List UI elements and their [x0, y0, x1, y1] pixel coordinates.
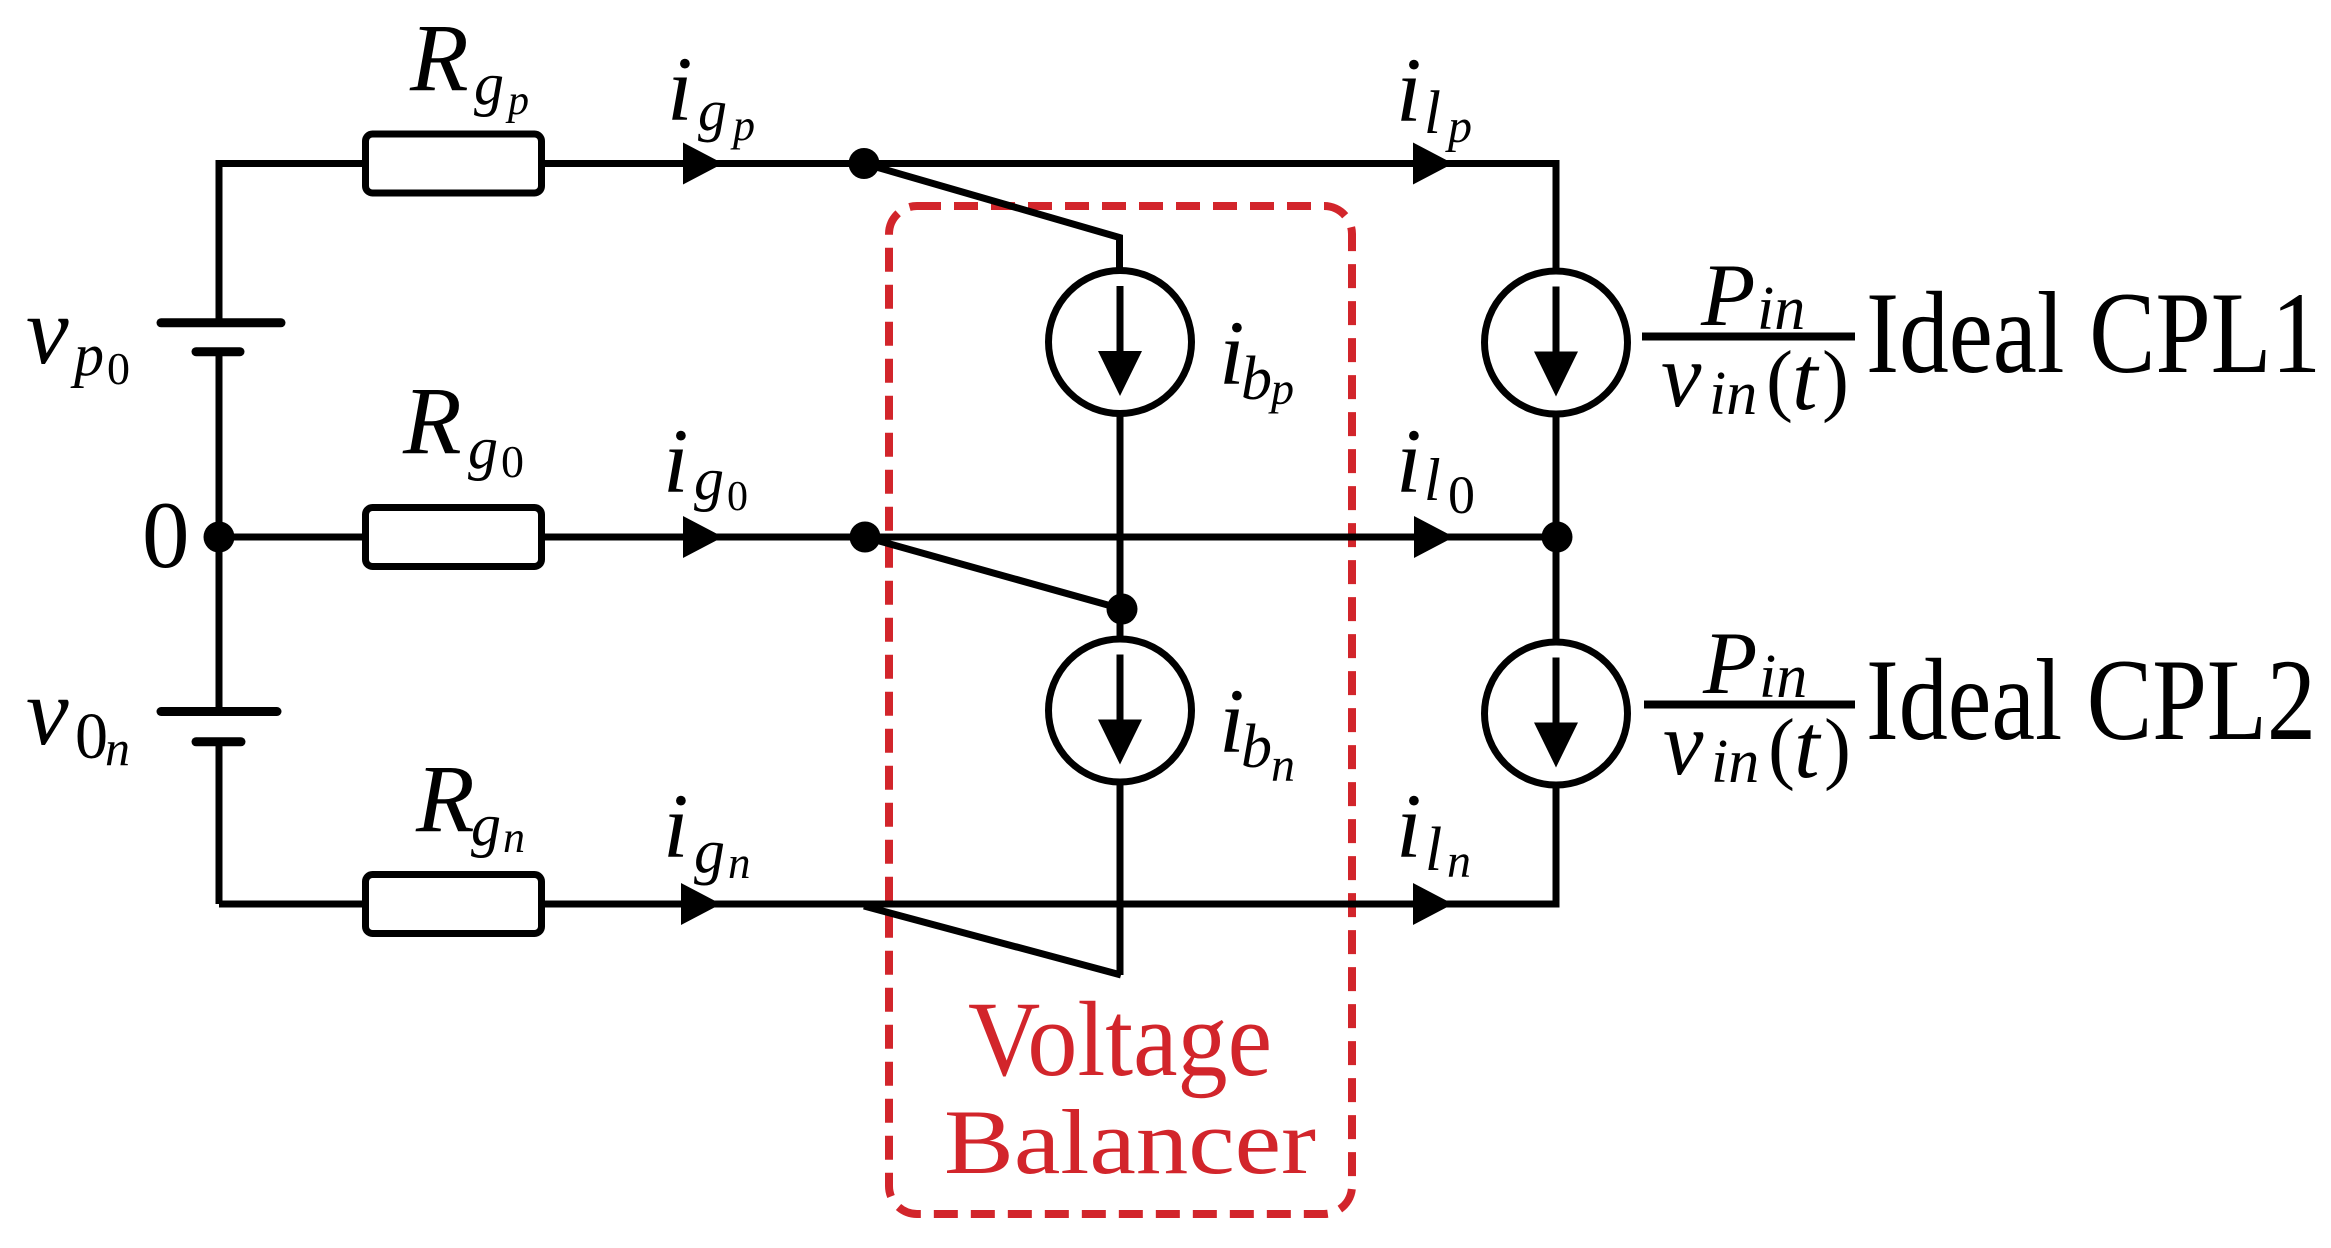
resistor Rgn: [366, 875, 542, 934]
wire left vertical p to vp0: [216, 160, 223, 319]
svg-text:p: p: [1268, 363, 1294, 414]
svg-text:): ): [1822, 334, 1849, 424]
svg-text:P: P: [1702, 615, 1757, 713]
svg-text:l: l: [1424, 447, 1441, 513]
wire CPL column CPL2 to bottom rail: [1553, 784, 1560, 908]
svg-text:p: p: [730, 101, 755, 150]
voltage balancer dashed box: [889, 206, 1352, 1214]
svg-text:b: b: [1241, 713, 1272, 781]
svg-text:): ): [1824, 702, 1851, 792]
svg-text:0: 0: [1448, 465, 1475, 525]
current source CPL2: [1485, 642, 1628, 785]
svg-text:R: R: [402, 367, 462, 474]
arrow iln: [1413, 883, 1453, 925]
svg-text:g: g: [694, 446, 724, 512]
battery v0n long plate: [161, 707, 277, 716]
wire diagonal top tap: [864, 164, 1120, 277]
svg-text:i: i: [1396, 410, 1422, 512]
svg-text:in: in: [1711, 728, 1759, 796]
svg-text:n: n: [105, 720, 130, 776]
wire CPL column between CPL1 and mid rail: [1553, 412, 1560, 537]
wire CPL column top: [1553, 160, 1560, 273]
svg-text:0: 0: [501, 436, 524, 487]
label ibp: [1219, 302, 1294, 414]
wire balancer column ibp to ibn: [1117, 408, 1124, 640]
svg-text:n: n: [503, 813, 525, 862]
svg-text:(: (: [1766, 334, 1793, 424]
svg-text:i: i: [667, 38, 693, 140]
wire left vertical v0n to n rail: [216, 741, 223, 904]
svg-text:i: i: [663, 410, 689, 512]
battery vp0 short plate: [196, 347, 240, 356]
svg-text:Voltage: Voltage: [968, 981, 1272, 1099]
wire mid rail 0: [219, 534, 1557, 541]
svg-text:0: 0: [142, 482, 190, 588]
svg-text:0: 0: [727, 474, 748, 520]
svg-text:Ideal CPL2: Ideal CPL2: [1866, 636, 2316, 765]
battery vp0 long plate: [161, 318, 281, 327]
svg-text:g: g: [694, 818, 725, 886]
arrow igp: [683, 143, 723, 185]
svg-text:R: R: [409, 4, 469, 111]
label igp: [667, 38, 755, 150]
label Rg0: [402, 367, 524, 487]
svg-text:i: i: [663, 775, 689, 877]
label vp0: [26, 277, 130, 394]
arrow ign: [681, 883, 721, 925]
svg-text:t: t: [1792, 327, 1820, 429]
junction node mid rail right: [1542, 522, 1573, 553]
label iln: [1396, 775, 1471, 888]
label Rgn: [415, 745, 525, 862]
wire diagonal mid tap: [865, 537, 1122, 609]
svg-text:t: t: [1794, 695, 1822, 797]
svg-text:R: R: [415, 745, 475, 852]
svg-text:in: in: [1709, 360, 1757, 428]
wire left vertical node 0 to v0n: [216, 537, 223, 708]
svg-text:(: (: [1768, 702, 1795, 792]
arrow il0: [1414, 516, 1454, 558]
junction node mid rail tap: [850, 522, 881, 553]
label ibn: [1219, 670, 1295, 792]
arrow ig0: [683, 516, 723, 558]
svg-text:0: 0: [107, 343, 130, 394]
wire left vertical vp0 to node 0: [216, 351, 223, 537]
svg-text:p: p: [1445, 100, 1472, 153]
label ign: [663, 775, 751, 888]
current source ibp: [1049, 271, 1192, 414]
junction node balancer mid: [1107, 594, 1138, 625]
svg-text:v: v: [1663, 693, 1704, 794]
label Rgp: [409, 4, 529, 124]
svg-text:l: l: [1424, 80, 1441, 147]
wire top rail p: [219, 160, 1557, 167]
resistor Rg0: [366, 508, 542, 567]
svg-text:n: n: [1271, 739, 1295, 792]
resistor Rgp: [366, 134, 542, 193]
svg-text:g: g: [468, 415, 498, 481]
svg-text:g: g: [474, 51, 504, 117]
svg-text:g: g: [698, 78, 727, 143]
current source ibn: [1049, 639, 1192, 782]
label Pin/vin(t) fraction CPL1: [1642, 247, 1855, 429]
svg-text:v: v: [26, 277, 69, 384]
label ig0: [663, 410, 748, 520]
svg-text:v: v: [26, 658, 69, 765]
svg-text:p: p: [505, 78, 529, 124]
svg-text:n: n: [728, 838, 751, 888]
svg-text:l: l: [1425, 816, 1442, 884]
svg-text:g: g: [471, 792, 501, 858]
arrow ilp: [1413, 143, 1453, 185]
wire CPL column mid rail to CPL2: [1553, 537, 1560, 644]
battery v0n short plate: [196, 737, 241, 746]
junction node 0 left: [204, 522, 235, 553]
svg-text:i: i: [1396, 775, 1422, 877]
wire balancer column below ibn: [1117, 780, 1124, 975]
svg-text:n: n: [1447, 835, 1471, 888]
wire bottom rail n: [219, 901, 1557, 908]
svg-text:0: 0: [75, 700, 108, 773]
svg-text:b: b: [1241, 345, 1272, 413]
junction node top rail tap: [849, 148, 880, 179]
label Pin/vin(t) fraction CPL2: [1644, 615, 1855, 797]
svg-text:v: v: [1661, 325, 1702, 426]
svg-text:i: i: [1396, 39, 1422, 141]
current source CPL1: [1485, 271, 1628, 414]
label v0n: [26, 658, 130, 776]
svg-text:P: P: [1700, 247, 1755, 345]
label il0: [1396, 410, 1475, 525]
svg-text:Ideal CPL1: Ideal CPL1: [1866, 269, 2321, 398]
svg-text:Balancer: Balancer: [944, 1091, 1316, 1193]
svg-text:p: p: [70, 322, 104, 388]
wire diagonal bottom tap: [864, 906, 1121, 975]
label ilp: [1396, 39, 1472, 153]
